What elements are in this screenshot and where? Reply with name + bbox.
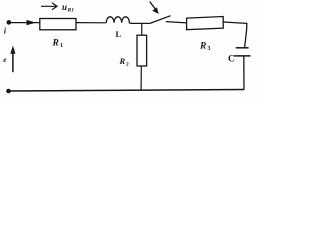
voltage arrow u_R1 (above R1) (41, 3, 57, 10)
wire (capacitor to bottom-right corner) (243, 56, 245, 90)
capacitor C (234, 48, 250, 56)
current arrow i (filled head on top-left wire) (27, 20, 37, 25)
wire (switch contact to R3) (166, 22, 187, 23)
EMF arrow e (source between terminals) (10, 46, 15, 73)
wire (R1 to L) (76, 22, 106, 24)
node A (top-left terminal dot) (7, 20, 12, 25)
switch S1 blade (open) (149, 16, 170, 24)
svg-text:1: 1 (60, 43, 63, 49)
resistor R3 (slightly tilted) (187, 17, 224, 30)
inductor L (three loops) (106, 17, 131, 24)
wire (top-right corner down to capacitor) (245, 23, 247, 48)
wire (bottom return rail) (9, 90, 245, 92)
svg-text:L: L (116, 29, 122, 39)
resistor R1 (40, 19, 76, 30)
svg-text:2: 2 (126, 62, 129, 68)
svg-text:u: u (62, 2, 67, 12)
wire (R3 to top-right corner) (223, 22, 247, 23)
svg-text:3: 3 (208, 46, 211, 52)
wire (top-left: terminal to R1) (9, 22, 41, 24)
svg-text:C: C (228, 55, 235, 65)
node D (bottom-left terminal dot) (6, 89, 11, 94)
svg-text:R: R (199, 42, 206, 52)
wire (L to switch pivot, middle top rail) (131, 22, 149, 24)
svg-text:R: R (119, 56, 126, 66)
switch closing arrow (150, 2, 159, 14)
svg-text:R1: R1 (67, 7, 75, 13)
resistor R2 (vertical branch) (137, 23, 147, 89)
svg-text:R: R (52, 39, 59, 49)
